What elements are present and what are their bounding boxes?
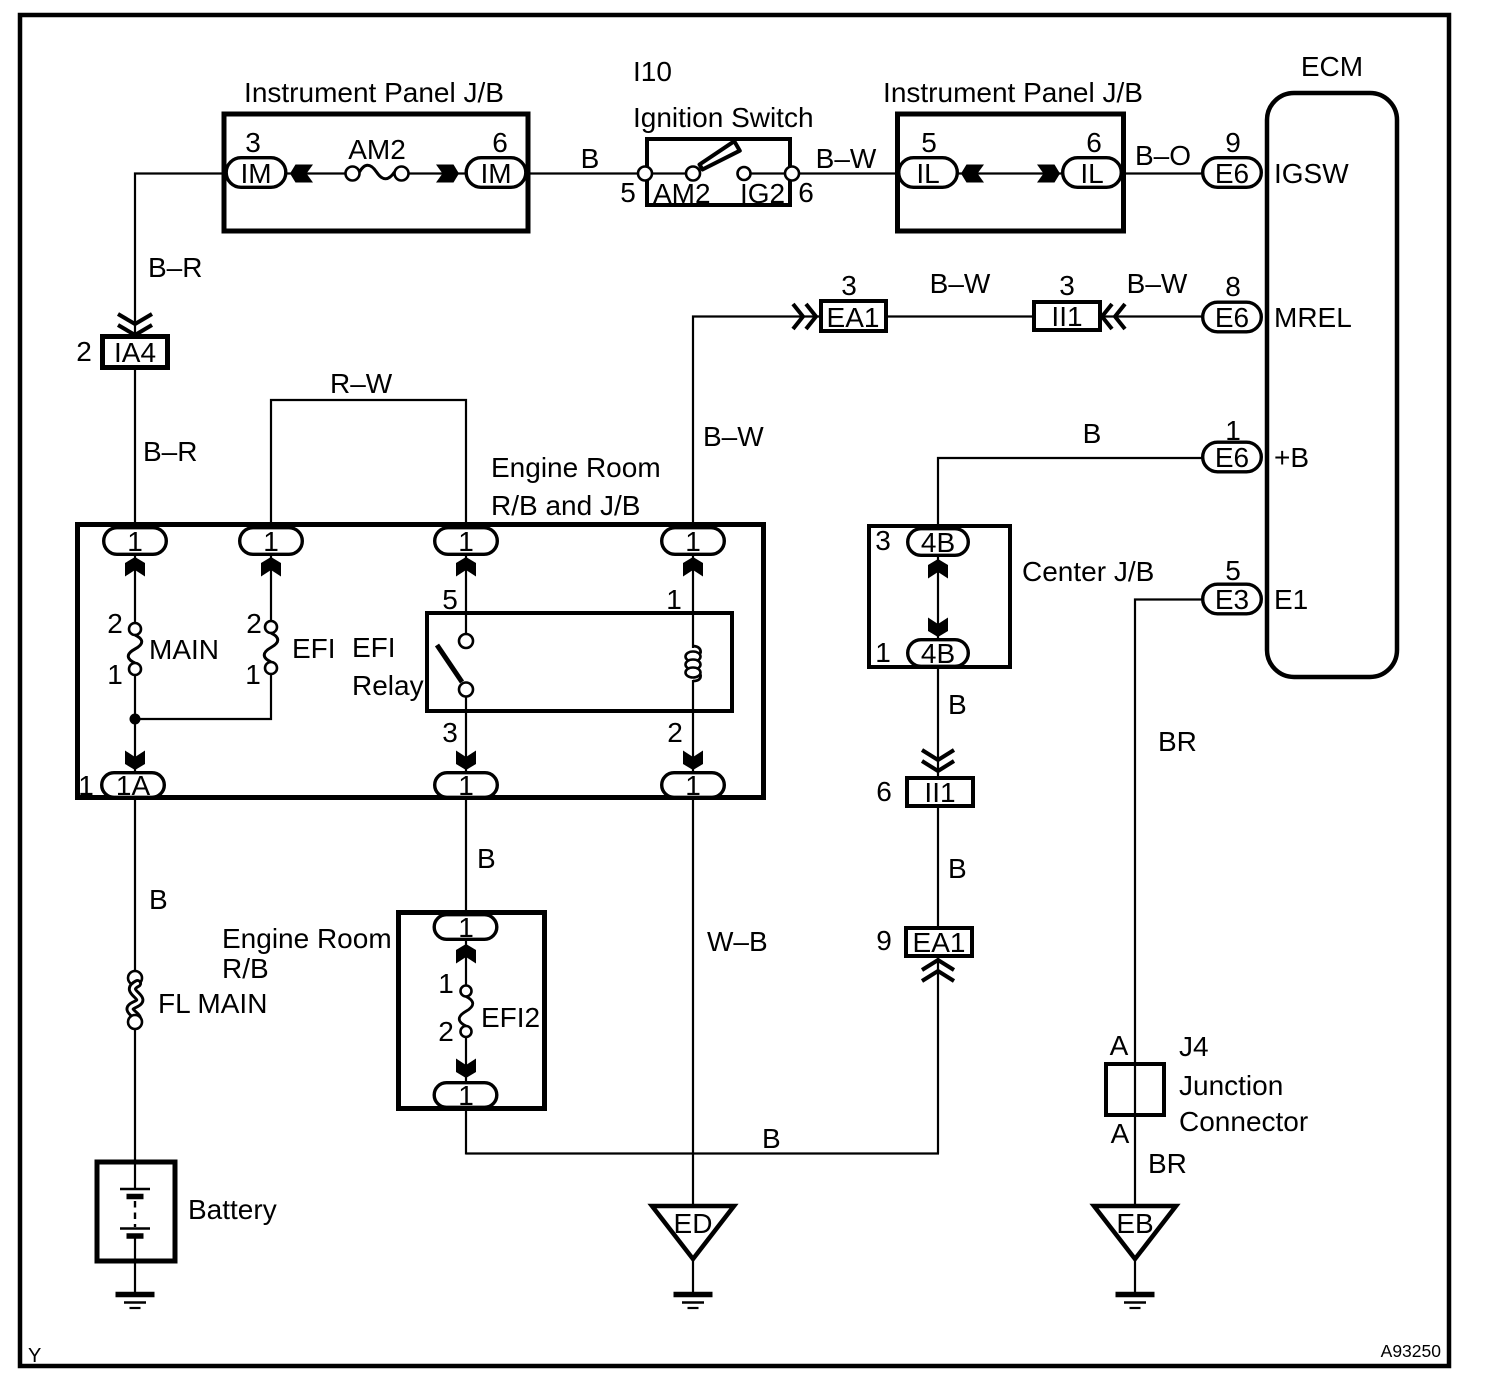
wire between IL arrows <box>958 172 1062 174</box>
connector IL (pin 5) <box>899 158 958 188</box>
svg-text:1: 1 <box>78 770 94 801</box>
svg-text:1: 1 <box>245 659 261 690</box>
svg-text:MAIN: MAIN <box>149 634 219 665</box>
svg-text:B–R: B–R <box>143 436 197 467</box>
svg-text:Center J/B: Center J/B <box>1022 556 1154 587</box>
svg-text:Ignition Switch: Ignition Switch <box>633 102 814 133</box>
svg-text:AM2: AM2 <box>653 178 711 209</box>
arrow into IM6 <box>436 165 459 183</box>
connector oval 1 col3 <box>435 528 498 555</box>
relay coil <box>693 646 701 654</box>
svg-text:3: 3 <box>841 270 857 301</box>
connector oval 1 col4 bottom <box>662 773 725 798</box>
battery <box>97 1162 175 1261</box>
wire col1 oval to MAIN fuse <box>134 555 136 624</box>
ECM body <box>1267 93 1397 677</box>
connector E6 pin 8 MREL <box>1203 302 1262 332</box>
svg-text:B: B <box>762 1123 781 1154</box>
wire between 4B connectors <box>937 556 939 640</box>
svg-text:1: 1 <box>458 526 474 557</box>
wire ECM E1 to BR column <box>1135 600 1202 1207</box>
fusible link FL MAIN <box>128 971 142 985</box>
fuse EFI <box>265 621 277 633</box>
svg-text:Instrument Panel J/B: Instrument Panel J/B <box>244 77 504 108</box>
svg-text:B: B <box>477 843 496 874</box>
wire bottom B run <box>466 1152 939 1154</box>
arrow up EFI2 <box>456 944 476 964</box>
terminal AM2 <box>686 167 700 181</box>
wire battery to ground <box>134 1236 136 1292</box>
wire II1 to EA1 <box>937 808 939 926</box>
svg-text:E6: E6 <box>1215 158 1249 189</box>
svg-text:IL: IL <box>916 158 939 189</box>
svg-text:2: 2 <box>76 336 92 367</box>
connector E6 pin 1 +B <box>1203 442 1262 472</box>
arrow down col1 <box>125 751 145 771</box>
arrow into IL6 <box>1037 165 1060 183</box>
wire ignition switch to IL5 <box>799 172 898 174</box>
svg-text:8: 8 <box>1225 271 1241 302</box>
svg-text:B–W: B–W <box>703 421 764 452</box>
wire EA1 down to bottom B run <box>937 957 939 1154</box>
wire EFI2 to bottom B run <box>465 1108 467 1155</box>
svg-text:ED: ED <box>674 1208 713 1239</box>
wire EFI2 oval to fuse <box>465 940 467 986</box>
svg-text:1: 1 <box>127 526 143 557</box>
svg-text:3: 3 <box>1059 270 1075 301</box>
svg-text:IG2: IG2 <box>740 178 785 209</box>
svg-text:2: 2 <box>107 608 123 639</box>
connector IA4 <box>103 337 168 368</box>
svg-text:EFI: EFI <box>292 633 336 664</box>
wire Center J/B to II1 <box>937 667 939 777</box>
svg-text:Battery: Battery <box>188 1194 277 1225</box>
connector IL (pin 6) <box>1063 158 1122 188</box>
relay switch blade <box>437 645 462 682</box>
svg-text:5: 5 <box>1225 555 1241 586</box>
switch lever <box>700 141 740 169</box>
svg-text:B: B <box>948 689 967 720</box>
svg-text:B–W: B–W <box>816 143 877 174</box>
svg-text:6: 6 <box>492 127 508 158</box>
svg-text:1: 1 <box>107 659 123 690</box>
svg-text:AM2: AM2 <box>348 134 406 165</box>
arrow down col4 <box>683 751 703 771</box>
svg-text:W–B: W–B <box>707 926 768 957</box>
arrow up col2 <box>261 557 281 577</box>
arrow up col3 <box>456 557 476 577</box>
svg-text:EB: EB <box>1116 1208 1153 1239</box>
wire ED to ground <box>692 1259 694 1292</box>
wire IM6 to ignition switch <box>528 172 645 174</box>
svg-text:R/B: R/B <box>222 953 269 984</box>
wire col2 oval to EFI fuse <box>270 555 272 622</box>
wire junction to EFI fuse column <box>135 674 271 719</box>
svg-text:Engine Room: Engine Room <box>222 923 392 954</box>
svg-text:R–W: R–W <box>330 368 393 399</box>
svg-text:IM: IM <box>240 158 271 189</box>
svg-text:IM: IM <box>480 158 511 189</box>
connector IM (pin 6) <box>466 158 526 188</box>
wire EA1 to II1 <box>888 315 1032 317</box>
terminal circle left edge <box>638 167 652 181</box>
chevrons out of II1 <box>1102 304 1125 329</box>
arrow up col4 <box>683 557 703 577</box>
svg-text:1: 1 <box>666 584 682 615</box>
arrow up col1 <box>125 557 145 577</box>
arrow down inside Center J/B <box>928 618 948 638</box>
arrow down EFI2 <box>456 1059 476 1079</box>
connector junction chevrons into IA4 <box>118 314 152 335</box>
svg-text:IL: IL <box>1080 158 1103 189</box>
ground ED <box>674 1292 713 1298</box>
ground EB <box>1116 1292 1155 1298</box>
junction block Engine Room R/B (EFI2) <box>399 913 545 1109</box>
svg-text:6: 6 <box>876 776 892 807</box>
wire R-W loop <box>271 400 466 528</box>
svg-text:4B: 4B <box>921 527 955 558</box>
arrow up inside Center J/B <box>928 559 948 579</box>
arrow down col3 <box>456 751 476 771</box>
svg-text:I10: I10 <box>633 56 672 87</box>
wire MREL net corner to relay coil column <box>693 317 820 529</box>
junction block Instrument Panel J/B (left) <box>224 114 528 231</box>
arrow into IL5 <box>961 165 984 183</box>
relay switch contact top <box>459 634 473 648</box>
connector 4B (pin 3) <box>908 529 969 556</box>
svg-text:1: 1 <box>458 1080 474 1111</box>
wire ECM +B to Center J/B <box>938 458 1202 526</box>
connector oval 1 col3 bottom <box>435 773 498 798</box>
svg-text:5: 5 <box>442 584 458 615</box>
svg-text:EFI: EFI <box>352 632 396 663</box>
terminal circle right edge <box>785 167 799 181</box>
svg-text:B: B <box>149 884 168 915</box>
fuse EFI2 <box>461 986 472 997</box>
terminal IG2 <box>738 167 751 180</box>
svg-text:5: 5 <box>620 177 636 208</box>
connector EA1 (pin 9) <box>906 928 972 956</box>
wire IM3 arrow to fuse AM2 <box>287 172 346 174</box>
svg-text:J4: J4 <box>1179 1031 1209 1062</box>
svg-text:E3: E3 <box>1215 584 1249 615</box>
svg-text:Engine Room: Engine Room <box>491 452 661 483</box>
wire EFI2 fuse to bottom oval <box>465 1037 467 1084</box>
wire FL MAIN to battery <box>134 1029 136 1190</box>
svg-text:9: 9 <box>1225 127 1241 158</box>
svg-text:ECM: ECM <box>1301 51 1363 82</box>
svg-text:E6: E6 <box>1215 442 1249 473</box>
svg-text:A93250: A93250 <box>1381 1341 1442 1361</box>
svg-text:FL MAIN: FL MAIN <box>158 988 267 1019</box>
wire relay switch to col3 bottom oval <box>465 696 467 775</box>
svg-text:9: 9 <box>876 925 892 956</box>
svg-text:IGSW: IGSW <box>1274 158 1349 189</box>
connector EA1 (pin 3) <box>821 301 886 331</box>
svg-text:B–O: B–O <box>1135 140 1191 171</box>
wire relay coil to col4 bottom oval <box>692 680 694 775</box>
svg-text:Y: Y <box>28 1345 41 1367</box>
svg-text:1A: 1A <box>116 770 151 801</box>
svg-text:3: 3 <box>442 717 458 748</box>
ground triangle EB <box>1094 1206 1176 1259</box>
chevrons into II1 <box>922 750 954 771</box>
connector II1 (pin 6) <box>907 778 973 806</box>
relay switch contact bottom <box>459 683 473 697</box>
svg-text:1: 1 <box>263 526 279 557</box>
svg-text:5: 5 <box>921 127 937 158</box>
svg-text:1: 1 <box>458 770 474 801</box>
connector E6 pin 9 IGSW <box>1203 158 1262 188</box>
svg-text:EFI2: EFI2 <box>481 1002 540 1033</box>
connector oval 1 EFI2 top <box>434 915 497 940</box>
junction dot <box>130 714 141 725</box>
svg-text:1: 1 <box>458 912 474 943</box>
svg-text:II1: II1 <box>1051 301 1082 332</box>
svg-text:II1: II1 <box>924 777 955 808</box>
svg-text:B: B <box>581 143 600 174</box>
junction block Center J/B <box>869 526 1010 667</box>
svg-text:6: 6 <box>1086 127 1102 158</box>
wire fuse AM2 to arrow <box>408 172 466 174</box>
connector 4B (pin 1) <box>908 640 969 667</box>
wire EB to ground <box>1134 1259 1136 1292</box>
chevrons into EA1 <box>793 304 816 329</box>
wire col3 bottom oval to EFI2 <box>465 799 467 914</box>
svg-text:Connector: Connector <box>1179 1106 1308 1137</box>
connector E3 pin 5 E1 <box>1203 584 1262 614</box>
ground triangle ED <box>652 1206 734 1259</box>
junction block Instrument Panel J/B (right) <box>898 114 1124 231</box>
connector IM (pin 3) <box>226 158 286 188</box>
svg-text:Instrument Panel J/B: Instrument Panel J/B <box>883 77 1143 108</box>
wire col3 oval to relay switch <box>465 555 467 635</box>
svg-text:2: 2 <box>438 1016 454 1047</box>
connector oval 1 col2 <box>240 528 303 555</box>
wire 1A to FL MAIN <box>134 799 136 971</box>
svg-text:Junction: Junction <box>1179 1070 1283 1101</box>
wire II1 to ECM MREL <box>1101 315 1202 317</box>
svg-text:BR: BR <box>1148 1148 1187 1179</box>
svg-text:1: 1 <box>875 637 891 668</box>
wire AM2 terminal to box edge <box>645 172 693 174</box>
svg-text:4B: 4B <box>921 638 955 669</box>
wire col4 bottom oval to ED ground <box>692 799 694 1206</box>
svg-text:BR: BR <box>1158 726 1197 757</box>
svg-text:B–W: B–W <box>1127 268 1188 299</box>
svg-text:6: 6 <box>798 177 814 208</box>
svg-text:1: 1 <box>685 770 701 801</box>
svg-text:B–R: B–R <box>148 252 202 283</box>
svg-text:2: 2 <box>667 717 683 748</box>
wire IL6 to ECM IGSW <box>1123 172 1202 174</box>
svg-text:EA1: EA1 <box>913 927 966 958</box>
svg-text:1: 1 <box>438 968 454 999</box>
svg-text:B: B <box>948 853 967 884</box>
fuse AM2 <box>346 167 360 181</box>
svg-text:R/B and J/B: R/B and J/B <box>491 490 640 521</box>
ground battery <box>116 1292 155 1298</box>
connector oval 1A <box>102 773 165 798</box>
svg-text:+B: +B <box>1274 442 1309 473</box>
connector oval 1 col4 <box>662 528 725 555</box>
fuse MAIN <box>129 623 141 635</box>
wire MAIN fuse to 1A oval <box>134 675 136 773</box>
wire IG2 terminal to box edge <box>744 172 792 174</box>
connector II1 (pin 3) <box>1034 302 1100 330</box>
chevrons out of EA1 <box>922 960 954 981</box>
svg-text:2: 2 <box>246 608 262 639</box>
svg-text:B: B <box>1083 418 1102 449</box>
connector oval 1 EFI2 bottom <box>434 1083 497 1108</box>
svg-text:E1: E1 <box>1274 584 1308 615</box>
svg-text:MREL: MREL <box>1274 302 1352 333</box>
svg-text:B–W: B–W <box>930 268 991 299</box>
connector oval 1 col1 <box>104 528 167 555</box>
svg-text:E6: E6 <box>1215 302 1249 333</box>
svg-text:Relay: Relay <box>352 670 424 701</box>
wire IA4 to Engine Room R/B oval 1 <box>134 370 136 529</box>
svg-text:IA4: IA4 <box>114 337 156 368</box>
svg-text:EA1: EA1 <box>827 302 880 333</box>
svg-text:A: A <box>1110 1030 1129 1061</box>
svg-text:1: 1 <box>685 526 701 557</box>
wire IM3 to left column corner <box>135 174 226 337</box>
svg-text:A: A <box>1111 1118 1130 1149</box>
svg-text:3: 3 <box>875 525 891 556</box>
wire col4 oval to relay coil <box>692 555 694 648</box>
arrow into IM3 <box>290 165 313 183</box>
svg-text:3: 3 <box>245 127 261 158</box>
